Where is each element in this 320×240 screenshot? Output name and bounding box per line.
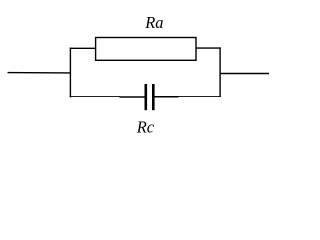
wire bottom-right to branch (thin): [179, 95, 221, 97]
wire right vertical branch: [219, 47, 221, 97]
svg-text:Ra: Ra: [144, 13, 163, 32]
wire top-right stub from resistor: [196, 47, 221, 49]
wire right lead: [220, 73, 269, 75]
wire left vertical branch: [69, 48, 71, 98]
resistor Ra body: [96, 38, 196, 61]
wire bottom-left from branch (thin): [70, 96, 120, 98]
wire capacitor left lead: [120, 96, 145, 98]
capacitor Rc left plate: [145, 84, 148, 110]
capacitor Rc right plate: [152, 84, 155, 110]
wire top-left stub to resistor: [70, 47, 96, 49]
svg-text:Rc: Rc: [136, 117, 155, 136]
wire left lead: [8, 72, 71, 74]
wire capacitor right lead: [155, 96, 179, 98]
